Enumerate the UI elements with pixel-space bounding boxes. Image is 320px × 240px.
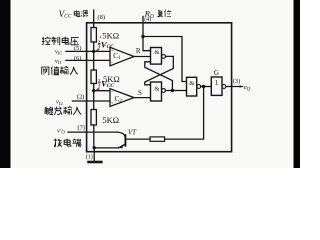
junction node dots [92, 35, 205, 150]
wire G3 output down to base resistor [165, 87, 204, 140]
wire R2 to R3 [93, 84, 95, 110]
label RD reset [144, 9, 172, 20]
svg-text:(7): (7) [78, 124, 85, 131]
wire R1 to R2 [93, 42, 95, 70]
left black border bar [0, 0, 11, 168]
resistor R1 5K [91, 28, 96, 43]
svg-text:5KΩ: 5KΩ [102, 115, 119, 125]
wire pin5 control voltage [66, 50, 110, 52]
nand gate G2 [151, 82, 162, 101]
svg-text:+: + [111, 48, 114, 53]
wire pin2 trigger [73, 100, 111, 102]
wire 1/3Vcc tap to C2 [94, 90, 110, 92]
wire output pin3 [226, 86, 243, 88]
resistor base R [150, 137, 165, 141]
wire G3 to G buffer [201, 86, 212, 88]
svg-text:S: S [138, 89, 142, 97]
label Vcc power [59, 9, 88, 20]
wire pin1 ground [93, 148, 95, 162]
svg-text:(4): (4) [144, 16, 151, 23]
resistor R3 5K [91, 110, 96, 126]
svg-text:+: + [111, 100, 114, 105]
label discharge [54, 139, 81, 147]
op-amp C2 comparator [110, 89, 134, 107]
node 1/3Vcc tap [92, 89, 95, 92]
wire pin6 threshold [66, 59, 110, 61]
label 1/3 Vcc red [95, 78, 114, 91]
svg-text:&: & [154, 49, 160, 56]
resistor R2 5K [91, 70, 96, 84]
ground bar [89, 161, 102, 164]
wire R comparator output [134, 56, 151, 58]
nand gate G3 [187, 77, 197, 96]
node 2/3Vcc tap [92, 50, 95, 53]
wire RD branch to gate G3 [143, 37, 187, 82]
right black border bar [294, 0, 301, 168]
wire latch to gate G3 [172, 90, 186, 92]
page background [0, 0, 300, 168]
label trigger input [45, 107, 81, 115]
wire pin8 Vcc [93, 10, 95, 28]
op-amp C1 comparator [110, 47, 134, 66]
arrow head output vo [240, 85, 243, 87]
wire pin7 discharge [68, 132, 125, 137]
nand gate G1 [151, 48, 162, 65]
svg-text:VT: VT [128, 128, 137, 136]
svg-text:(1): (1) [86, 154, 93, 161]
node latch output [171, 89, 174, 92]
svg-text:-: - [111, 89, 113, 95]
svg-text:(2): (2) [77, 94, 84, 101]
label control voltage [42, 37, 79, 45]
node RD branch [141, 35, 144, 38]
wire resistor to VT base [126, 138, 150, 140]
svg-text:R: R [136, 47, 141, 55]
wire emitter to ground node [94, 147, 118, 149]
red speck [100, 36, 101, 39]
emitter arrow of VT [119, 144, 124, 149]
label 2/3 Vcc red [95, 39, 114, 51]
svg-text:1: 1 [215, 79, 219, 87]
inverter G [211, 77, 222, 95]
svg-text:(3): (3) [233, 78, 240, 85]
wire RD reset pin4 [143, 17, 151, 51]
svg-text:(5): (5) [74, 45, 81, 52]
wire R3 to ground node [93, 125, 95, 148]
label threshold input [42, 66, 78, 74]
svg-text:&: & [154, 85, 160, 92]
svg-text:-: - [111, 59, 113, 65]
IC boundary rectangle [87, 23, 232, 152]
svg-text:3: 3 [98, 83, 100, 88]
wire S comparator output [134, 97, 151, 99]
wire cross-couple Q to G2 [145, 56, 174, 84]
svg-text:(6): (6) [74, 55, 81, 62]
wire cross-couple Qbar to G1 [145, 62, 173, 91]
svg-text:G: G [214, 69, 219, 77]
svg-text:&: & [189, 80, 195, 87]
svg-text:(8): (8) [98, 14, 106, 21]
node G3 output [202, 85, 205, 88]
node ground junction [93, 146, 96, 149]
transistor VT [124, 135, 126, 146]
